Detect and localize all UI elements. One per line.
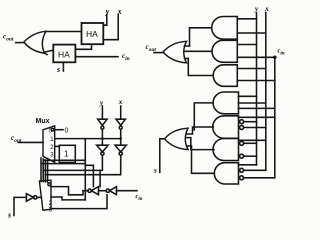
wire I2 output return to mux select lines (43, 155, 102, 170)
svg-text:x: x (118, 98, 123, 106)
and-gate S1 (213, 92, 238, 114)
constant 1 box (59, 145, 75, 162)
wire I4 output return to mux select lines (45, 155, 120, 175)
wire I3 to I4 (120, 129, 122, 145)
A1 input wires (237, 18, 256, 20)
wire bus vertical 3 between muxes (44, 160, 46, 182)
wire OR1 output (154, 52, 163, 54)
rail y vertical (256, 13, 258, 165)
S1 output wire (194, 103, 213, 130)
OR1 input stubs (185, 46, 190, 59)
svg-text:Mux: Mux (36, 118, 50, 125)
wire HA1 sum out to HA2 (75, 44, 91, 49)
or-gate OR0 (cout) (24, 31, 47, 54)
wire OR2 output s (160, 139, 165, 173)
wire bus vertical 2 between muxes (42, 159, 44, 182)
svg-text:HA: HA (86, 29, 98, 39)
A3 output wire (188, 59, 212, 76)
junction dot at x column (119, 137, 122, 140)
wire x input to HA1 (103, 15, 118, 40)
A2 output wire (185, 50, 212, 52)
half adder HA2 (53, 45, 75, 63)
junction dot at y column (101, 137, 104, 140)
wire y down to inverter (101, 106, 103, 119)
S2 output wire (187, 127, 214, 134)
rail c_in vertical (274, 57, 276, 178)
or-gate OR2 (sum) (165, 128, 189, 149)
mux M1 input digits (51, 128, 54, 131)
and-gate S2 (213, 116, 239, 139)
wire s into I7 (14, 197, 26, 215)
and-gate S4 (214, 163, 238, 184)
and-gate S3 (213, 139, 239, 161)
wire c_in into I6 (117, 190, 138, 192)
wire I7 output to M2 select (37, 196, 41, 198)
S3 bubbles (240, 141, 244, 145)
svg-text:s: s (153, 166, 157, 174)
svg-text:s: s (7, 211, 11, 220)
svg-text:x: x (117, 7, 122, 16)
wire bus vertical 4 between muxes (47, 161, 49, 182)
wire M1 input 1 long horizontal (55, 138, 121, 140)
wire M1 output c_out (18, 141, 43, 143)
and-gate A1 (212, 17, 238, 40)
wire HA2 carry out to OR gate (45, 50, 54, 52)
inverter I5 (c_in first, left-pointing) (91, 187, 98, 195)
svg-text:s: s (56, 65, 60, 74)
mux M2 (lower trapezoid) (39, 180, 51, 210)
S4 bubbles (240, 168, 244, 172)
wire M2 input 2 (51, 197, 85, 200)
svg-text:HA: HA (58, 50, 70, 60)
A2 input wires (237, 44, 256, 46)
or-gate OR1 (c_out) (163, 41, 187, 63)
wire I5 output (83, 190, 88, 192)
and-gate A3 (213, 65, 237, 87)
wire M1 input 0 constant (55, 129, 63, 131)
wire HA1 carry out to OR gate (46, 31, 82, 33)
svg-text:1: 1 (64, 150, 69, 159)
wire M1 in-line vertical branch (84, 139, 86, 200)
wire I5-I6 link (99, 190, 107, 192)
inverter I2 (y second) (97, 145, 109, 152)
wire M1 input 2 to constant 1 box (55, 145, 60, 147)
wire M2 input 1 elbow (51, 187, 83, 195)
S2 input wires (239, 116, 275, 118)
inverter I1 (y first) (98, 119, 107, 125)
S3 output wire (187, 138, 214, 150)
S2 bubbles (240, 120, 244, 124)
and-gate A2 (212, 40, 237, 62)
wire branch to inverter A top (99, 170, 101, 186)
wire branch to inverter chain (85, 165, 93, 186)
wire x down to inverter (120, 106, 122, 119)
wire y input to HA1 (103, 15, 107, 26)
A1 output wire (190, 28, 212, 46)
A3 input wires (237, 68, 265, 70)
wire OR0 output c_out (16, 42, 24, 44)
inverter I4 (x second) (115, 145, 126, 152)
inverter I6 (c_in second, left-pointing) (110, 187, 117, 195)
wire HA2 sum out s (62, 62, 64, 71)
S3 input wires (239, 139, 266, 141)
half adder HA1 (82, 23, 104, 44)
mux M2 input digits (48, 183, 51, 186)
svg-text:x: x (264, 5, 269, 13)
wire c_in to HA2 (75, 56, 118, 58)
S4 output wire (187, 146, 213, 173)
wire M2 input 3 (51, 195, 107, 209)
inverter I3 (x first) (116, 119, 125, 125)
mux M1 (upper trapezoid) (43, 126, 55, 163)
inverter I7 (s input, right-pointing) (26, 194, 33, 202)
svg-text:0: 0 (65, 128, 69, 135)
wire const1-box corner link (42, 163, 86, 165)
rail x vertical (265, 13, 267, 171)
S4 input wires (239, 164, 257, 166)
wire I1 to I2 (101, 129, 103, 145)
wire bus vertical 1 between muxes (40, 158, 42, 181)
S1 input wires (239, 95, 257, 97)
junction dot c_in (273, 56, 277, 60)
wire mux bus to in1 vertical (44, 159, 86, 161)
